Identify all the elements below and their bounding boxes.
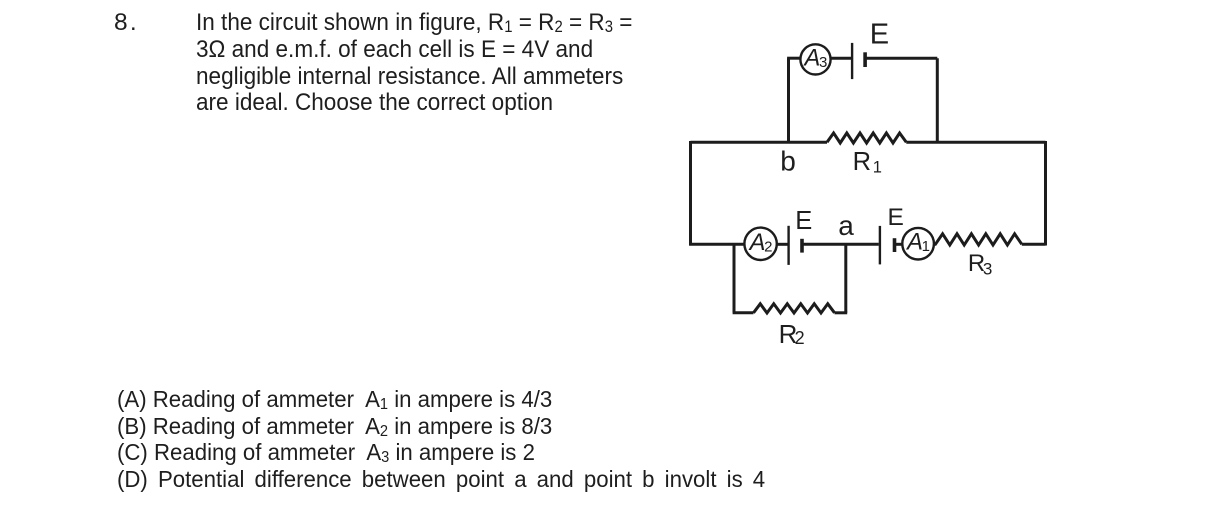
question number 8 xyxy=(114,10,139,37)
wire: top loop to ammeter A3 xyxy=(787,57,801,60)
svg-text:b: b xyxy=(780,146,796,177)
svg-text:A: A xyxy=(803,45,821,71)
wire: top loop right vertical xyxy=(936,58,939,142)
svg-text:1: 1 xyxy=(922,238,930,255)
ammeter A2 circle xyxy=(744,228,776,260)
wire: outer left vertical xyxy=(689,141,692,246)
svg-text:E: E xyxy=(795,207,812,235)
wire: A3 to top cell xyxy=(831,57,851,60)
top cell long plate xyxy=(851,43,853,79)
svg-text:3: 3 xyxy=(819,54,827,71)
wire: R2 branch left vertical xyxy=(733,243,736,313)
cell E1 long plate xyxy=(787,226,789,265)
svg-text:A: A xyxy=(905,230,923,256)
wire: outer right vertical xyxy=(1044,141,1047,246)
wire: bottom bus left segment to ammeter A2 xyxy=(689,243,744,246)
svg-text:2: 2 xyxy=(795,328,805,348)
svg-text:E: E xyxy=(870,19,889,51)
svg-text:E: E xyxy=(888,204,904,231)
svg-text:A: A xyxy=(748,230,766,256)
wire: top cell to right vertical xyxy=(865,57,937,60)
top cell short plate xyxy=(863,52,867,67)
wire: top loop left vertical (node b) xyxy=(787,58,790,142)
wire: main horizontal bus right segment xyxy=(906,141,1045,144)
circuit schematic xyxy=(660,0,1080,370)
wire: cell E1 to cell E2 through node a xyxy=(802,243,879,246)
svg-text:2: 2 xyxy=(764,238,772,255)
wire: A2 to cell E1 xyxy=(777,243,788,246)
wire: R2 branch right vertical (node a junction) xyxy=(844,243,847,313)
ammeter A3 circle xyxy=(800,44,830,74)
resistor R2 zigzag xyxy=(754,304,835,313)
cell E2 long plate xyxy=(879,226,881,265)
svg-text:a: a xyxy=(838,210,854,241)
wire: main horizontal bus left segment xyxy=(691,141,828,144)
wire: R3 to right vertical xyxy=(1022,243,1046,246)
cell E1 short plate xyxy=(800,239,804,253)
question text xyxy=(196,10,632,116)
wire: R2 bottom left segment xyxy=(733,311,754,314)
svg-text:1: 1 xyxy=(873,159,882,177)
resistor R3 zigzag xyxy=(934,234,1022,245)
wire: R2 bottom right segment xyxy=(835,311,848,314)
options list xyxy=(117,386,765,493)
wire: cell E2 to ammeter A1 xyxy=(895,243,903,246)
cell E2 short plate xyxy=(893,238,897,252)
svg-text:3: 3 xyxy=(983,260,992,279)
resistor R1 zigzag xyxy=(827,133,906,143)
svg-text:R: R xyxy=(853,148,871,176)
ammeter A1 circle xyxy=(902,228,934,260)
